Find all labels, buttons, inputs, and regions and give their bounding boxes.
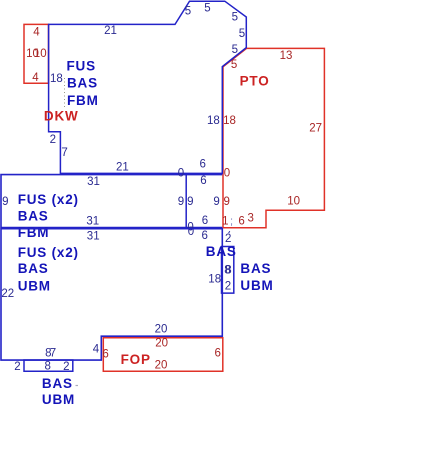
svg-text:20: 20 [155, 360, 168, 372]
svg-text:2: 2 [14, 361, 20, 373]
svg-text:0: 0 [224, 167, 230, 179]
svg-text:FOP: FOP [121, 352, 151, 367]
svg-text:21: 21 [116, 162, 129, 174]
svg-text:FBM: FBM [18, 225, 50, 240]
svg-text:9: 9 [213, 196, 219, 208]
svg-text:8: 8 [44, 361, 50, 373]
svg-text:2: 2 [225, 280, 231, 292]
svg-text:FUS (x2): FUS (x2) [18, 192, 79, 207]
svg-text:6: 6 [201, 230, 207, 242]
svg-text:10: 10 [287, 195, 300, 207]
svg-text:UBM: UBM [42, 392, 75, 407]
svg-text:9: 9 [178, 196, 184, 208]
svg-text:20: 20 [155, 337, 168, 349]
svg-text:5: 5 [239, 28, 245, 40]
blue right strip rectangle [222, 247, 234, 294]
svg-text:4: 4 [33, 26, 40, 38]
svg-text:6: 6 [238, 216, 244, 228]
svg-text:UBM: UBM [240, 278, 273, 293]
svg-text:;: ; [230, 216, 233, 228]
svg-text:5: 5 [185, 5, 191, 17]
red FOP rectangle [103, 338, 223, 372]
svg-text:2: 2 [50, 134, 56, 146]
svg-text:9: 9 [187, 196, 193, 208]
blue middle band (open right) [1, 175, 222, 228]
svg-text:BAS: BAS [206, 244, 237, 259]
svg-text:4: 4 [93, 343, 100, 355]
svg-text:BAS: BAS [18, 209, 49, 224]
svg-text:18: 18 [207, 115, 220, 127]
svg-text:6: 6 [102, 348, 108, 360]
svg-text:BAS: BAS [240, 261, 271, 276]
svg-text:6: 6 [199, 158, 205, 170]
svg-text:5: 5 [231, 59, 237, 71]
svg-text:0: 0 [178, 167, 184, 179]
svg-text:18: 18 [223, 115, 236, 127]
svg-text:10: 10 [34, 48, 47, 60]
svg-text:21: 21 [104, 25, 117, 37]
svg-text:18: 18 [50, 73, 63, 85]
svg-text:31: 31 [87, 176, 100, 188]
red PTO polygon [223, 48, 324, 227]
svg-text:6: 6 [202, 215, 208, 227]
svg-text:FUS: FUS [67, 58, 96, 73]
svg-text:13: 13 [280, 50, 293, 62]
svg-text:18: 18 [208, 273, 221, 285]
svg-text:9: 9 [2, 196, 8, 208]
svg-text:31: 31 [87, 230, 100, 242]
svg-text:FBM: FBM [67, 93, 99, 108]
blue bottom small rectangle [24, 360, 73, 371]
svg-text:22: 22 [1, 288, 14, 300]
svg-text:5: 5 [232, 12, 238, 24]
svg-text:BAS: BAS [67, 76, 98, 91]
tick above 2 [229, 231, 230, 233]
svg-text:BAS: BAS [42, 376, 73, 391]
blue lower building polygon [1, 229, 222, 360]
svg-text:3: 3 [247, 212, 253, 224]
svg-text:7: 7 [61, 147, 67, 159]
svg-text:31: 31 [86, 216, 99, 228]
svg-text:9: 9 [223, 196, 229, 208]
svg-text:8: 8 [225, 265, 231, 277]
svg-text:BAS: BAS [18, 261, 49, 276]
svg-text:1: 1 [222, 215, 228, 227]
svg-text:PTO: PTO [240, 73, 270, 88]
svg-text:FUS (x2): FUS (x2) [18, 245, 79, 260]
svg-text:27: 27 [309, 122, 322, 134]
svg-text:UBM: UBM [18, 278, 51, 293]
gray dash right of BAS [76, 385, 79, 387]
blue upper building polygon [49, 1, 247, 173]
svg-text:6: 6 [214, 348, 220, 360]
svg-text:4: 4 [32, 72, 39, 84]
svg-text:7: 7 [50, 347, 56, 359]
svg-text:5: 5 [204, 2, 210, 14]
svg-text:5: 5 [232, 44, 238, 56]
svg-text:2: 2 [63, 361, 69, 373]
svg-text:DKW: DKW [44, 108, 79, 123]
red annex rectangle top-left [24, 24, 49, 83]
svg-text:6: 6 [200, 175, 206, 187]
dotted reference line [64, 78, 66, 108]
blue middle divider [185, 174, 187, 229]
svg-text:20: 20 [155, 324, 168, 336]
